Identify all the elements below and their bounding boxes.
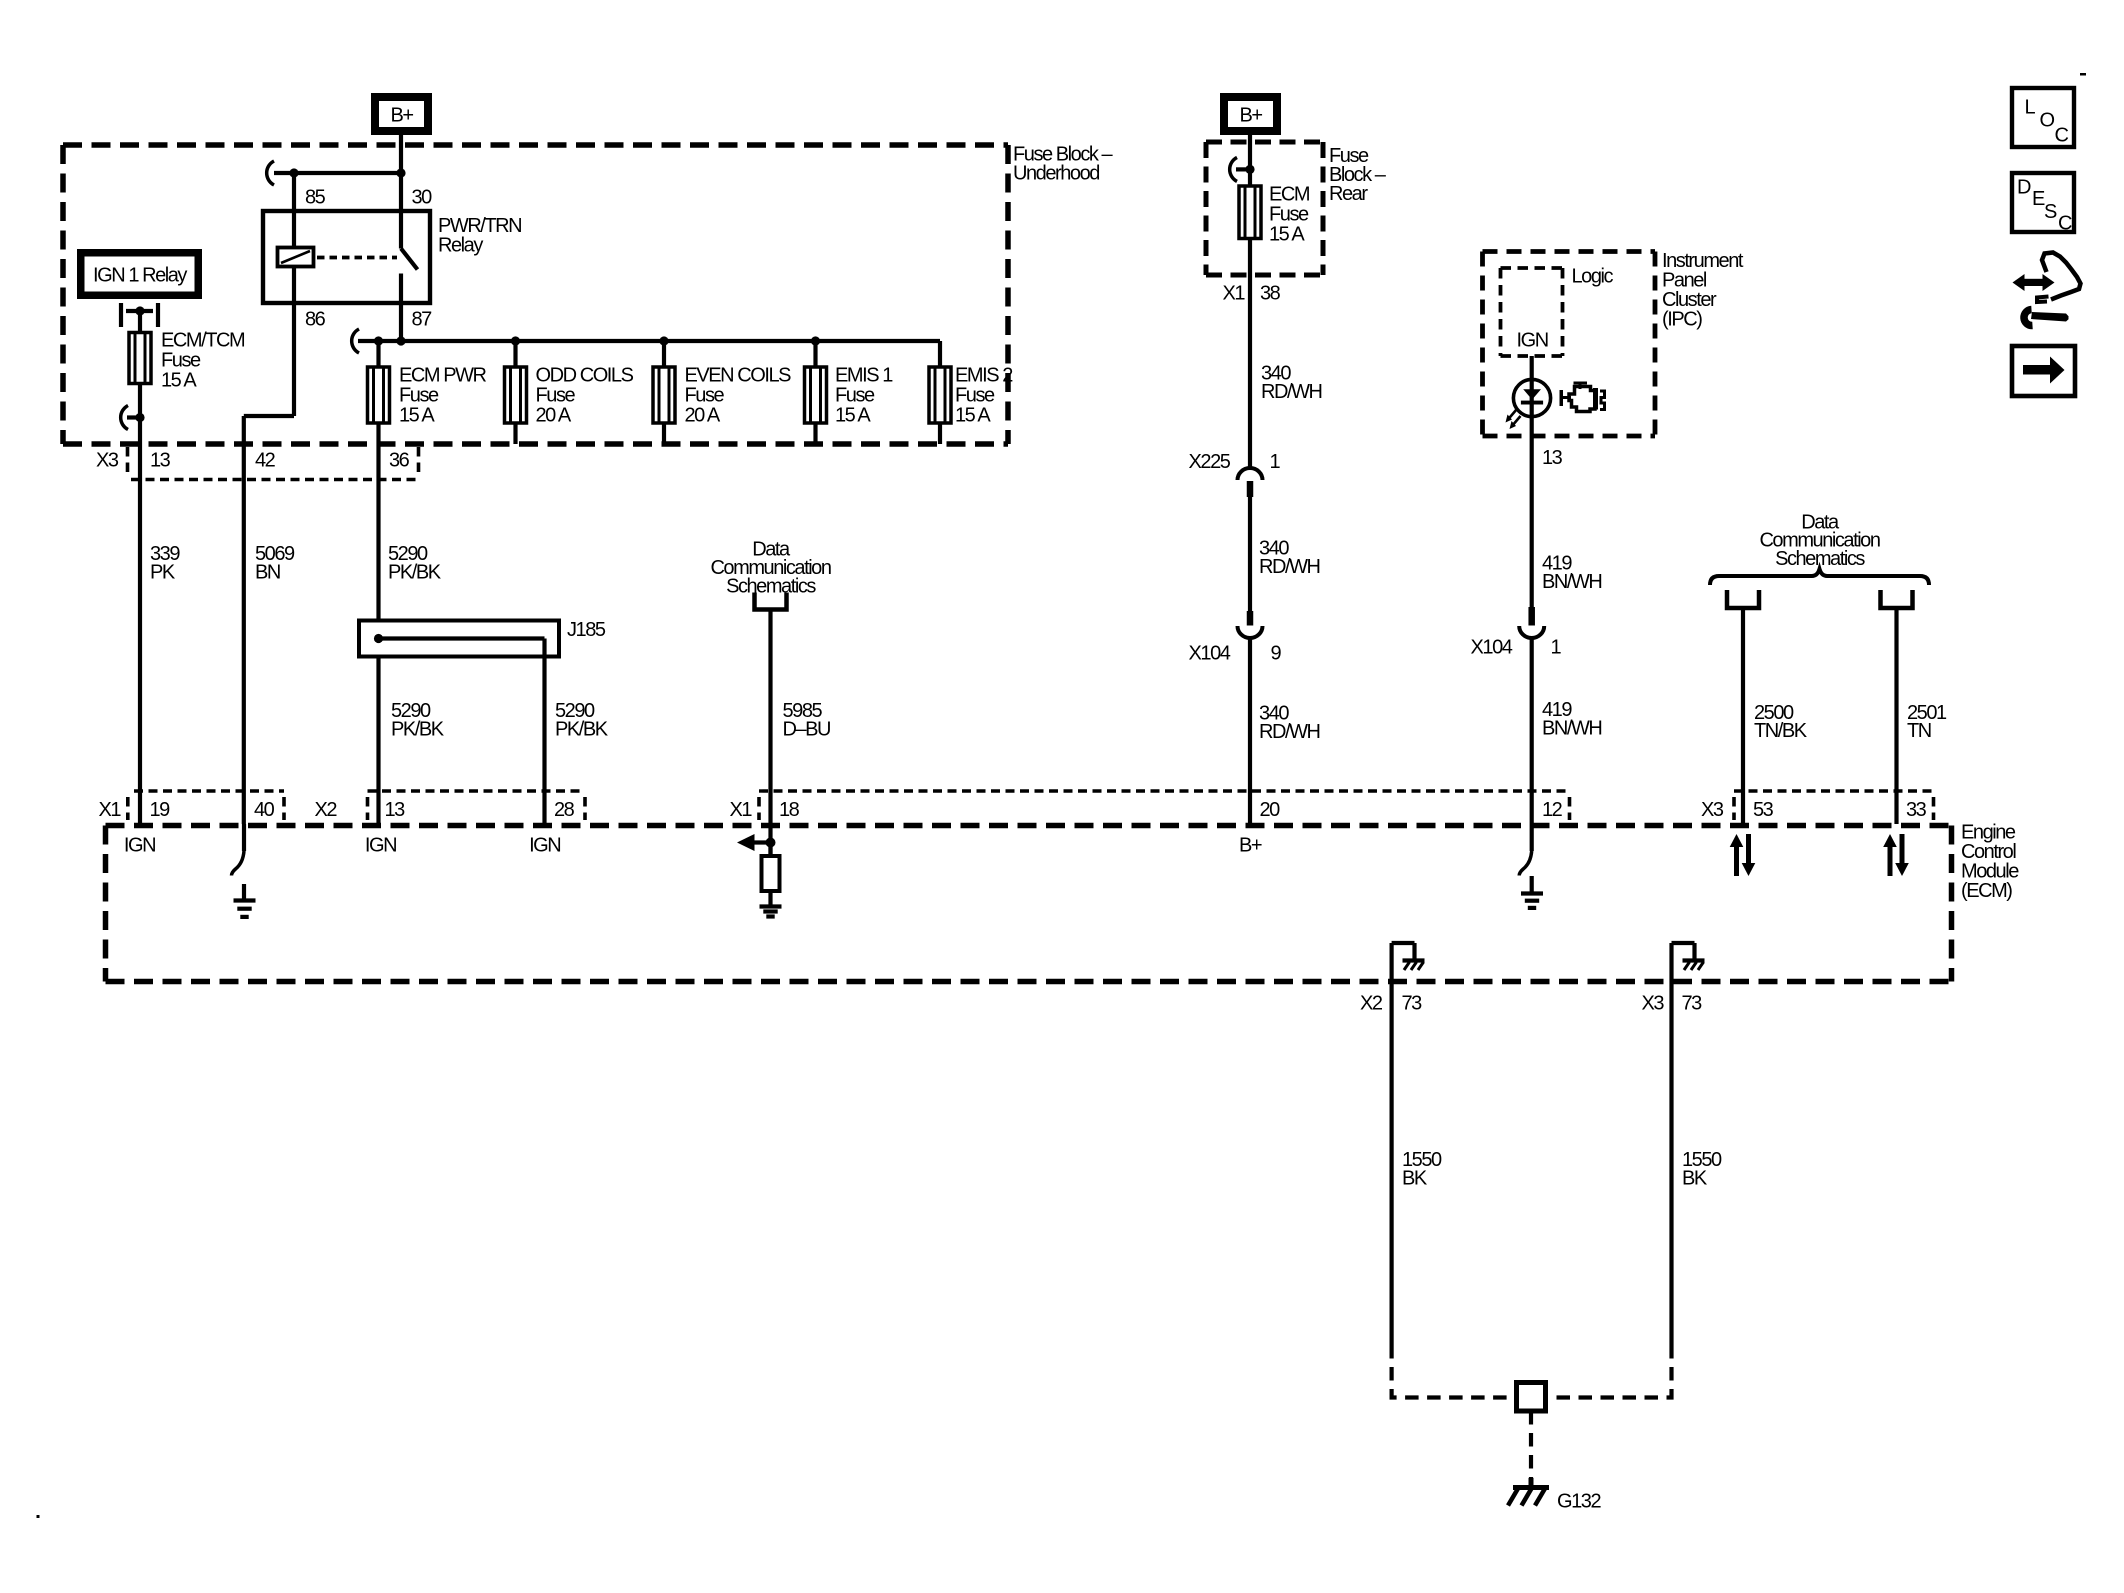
svg-text:ECM: ECM: [1269, 184, 1310, 206]
svg-text:ODD COILS: ODD COILS: [536, 365, 634, 387]
svg-text:Fuse: Fuse: [955, 385, 995, 407]
svg-text:X2: X2: [315, 799, 338, 821]
svg-text:PK/BK: PK/BK: [388, 562, 442, 584]
svg-text:36: 36: [389, 450, 410, 472]
svg-text:X104: X104: [1189, 643, 1231, 665]
svg-text:Fuse: Fuse: [835, 385, 875, 407]
svg-text:EVEN COILS: EVEN COILS: [685, 365, 792, 387]
svg-text:L: L: [2025, 97, 2036, 119]
forward arrow icon: [2012, 346, 2075, 396]
svg-text:EMIS 2: EMIS 2: [955, 365, 1013, 387]
svg-text:RD/WH: RD/WH: [1261, 381, 1322, 403]
svg-text:BK: BK: [1402, 1168, 1428, 1190]
fuse bus junction dots: [374, 336, 383, 345]
svg-text:(ECM): (ECM): [1961, 880, 2012, 902]
svg-text:O: O: [2040, 110, 2055, 132]
svg-text:PK/BK: PK/BK: [391, 719, 445, 741]
svg-text:13: 13: [150, 450, 171, 472]
svg-text:38: 38: [1260, 283, 1281, 305]
B+ terminal box (rear): [1224, 97, 1277, 131]
ECM connector dashed rows: [134, 789, 284, 792]
svg-text:RD/WH: RD/WH: [1259, 556, 1320, 578]
svg-text:20 A: 20 A: [536, 405, 572, 427]
wire 2500 TN/BK to ECM pin 53: [1741, 608, 1745, 824]
svg-text:X1: X1: [1223, 283, 1246, 305]
wire 340 RD/WH X225 to X104: [1247, 481, 1254, 497]
logic box: [1501, 266, 1563, 270]
svg-text:42: 42: [255, 450, 276, 472]
LED emission arrows: [1506, 410, 1521, 430]
svg-text:S: S: [2044, 201, 2057, 223]
svg-text:BN/WH: BN/WH: [1542, 571, 1601, 593]
svg-text:BN/WH: BN/WH: [1542, 718, 1601, 740]
svg-text:15 A: 15 A: [1269, 224, 1305, 246]
wire 5290 PK/BK J185 to ECM pin 28: [542, 639, 546, 825]
hook connector at pin 85 branch: [267, 161, 274, 185]
inline connector X104 pin 1: [1519, 626, 1544, 638]
svg-text:G132: G132: [1557, 1491, 1601, 1513]
svg-text:Rear: Rear: [1329, 183, 1368, 205]
fuse F-EMIS 1 15A: [805, 367, 827, 423]
wire 419 BN/WH X104 to ECM pin 12: [1530, 638, 1534, 826]
svg-text:IGN 1 Relay: IGN 1 Relay: [93, 264, 187, 286]
wire 5290 PK/BK J185 to ECM pin 13: [376, 657, 380, 825]
LED indicator (MIL): [1513, 379, 1550, 416]
svg-text:ECM PWR: ECM PWR: [399, 365, 487, 387]
svg-text:(IPC): (IPC): [1662, 309, 1702, 331]
wire B+ to ECM fuse: [1248, 135, 1252, 186]
svg-text:RD/WH: RD/WH: [1259, 721, 1320, 743]
vehicle outline icon: [2042, 253, 2081, 300]
wire relay pin 86 to X3 pin 42 (5069 BN): [244, 414, 294, 418]
svg-text:73: 73: [1402, 993, 1423, 1015]
pin X3-73 internal chassis ground: [1669, 943, 1673, 982]
J185 internal bus and junction: [379, 636, 545, 640]
svg-text:X2: X2: [1360, 993, 1383, 1015]
svg-text:73: 73: [1682, 993, 1703, 1015]
svg-text:28: 28: [554, 799, 575, 821]
wrench icon: [2024, 310, 2069, 326]
inline connector X225 pin 1: [1238, 468, 1263, 480]
pin40 internal ground wire: [242, 824, 246, 851]
fuse block rear box: [1206, 140, 1323, 145]
relay coil-contact dashed link: [317, 256, 397, 260]
instrument panel cluster box: [1483, 249, 1656, 254]
svg-text:86: 86: [305, 309, 326, 331]
pin18 ground: [768, 891, 772, 907]
fuse F-ECM/TCM 15A: [129, 333, 151, 384]
svg-text:13: 13: [385, 799, 406, 821]
svg-text:C: C: [2058, 213, 2072, 235]
DESC icon: [2012, 173, 2074, 232]
svg-text:15 A: 15 A: [161, 370, 197, 392]
svg-text:1: 1: [1551, 637, 1562, 659]
fuse F-ECM 15A: [1239, 186, 1261, 239]
wire stubs bus to fuses: [376, 341, 380, 367]
fuse F-EVEN COILS 20A: [653, 367, 675, 423]
wire branch to relay pin 85: [274, 171, 401, 175]
svg-text:20: 20: [1260, 799, 1281, 821]
pin40 ground G: [242, 884, 246, 901]
svg-text:15 A: 15 A: [399, 405, 435, 427]
pin12 internal ground wire: [1530, 826, 1534, 852]
off-page connector symbols: [1727, 590, 1759, 608]
fuse F-EMIS 2 15A: [929, 367, 951, 423]
connector X3 dashed outline: [126, 447, 130, 474]
wire B+ feed to relay pin 30: [399, 135, 403, 211]
svg-text:X3: X3: [1642, 993, 1665, 1015]
svg-text:IGN: IGN: [529, 835, 560, 857]
svg-text:Fuse: Fuse: [685, 385, 725, 407]
LED diode symbol: [1523, 389, 1541, 399]
ECM box: [106, 823, 1952, 829]
resistor R (serial data terminator): [768, 843, 772, 857]
stray mark bottom left: [37, 1515, 40, 1518]
svg-text:X1: X1: [730, 799, 753, 821]
svg-text:C: C: [2055, 125, 2069, 147]
fuse block underhood box: [63, 142, 1008, 148]
hook connector at fuse bus start: [352, 329, 359, 353]
fuse bus from relay pin 87: [358, 339, 940, 343]
svg-text:ECM/TCM: ECM/TCM: [161, 330, 245, 352]
svg-text:X225: X225: [1189, 451, 1231, 473]
svg-text:X3: X3: [1701, 799, 1724, 821]
serial data direction arrows pin 53: [1730, 834, 1756, 876]
splice hook below ECM/TCM fuse: [127, 415, 140, 419]
IGN 1 relay label box: [81, 253, 199, 296]
pin12 ground G: [1530, 876, 1534, 894]
dashed lead to G132: [1529, 1411, 1533, 1478]
svg-text:TN/BK: TN/BK: [1754, 720, 1808, 742]
stray mark top right: [2080, 73, 2086, 76]
svg-text:PK: PK: [150, 562, 176, 584]
svg-text:Schematics: Schematics: [726, 576, 816, 598]
B+ terminal box (underhood): [375, 97, 428, 131]
wire 340 RD/WH X104 to ECM pin 20: [1248, 638, 1252, 824]
svg-text:Relay: Relay: [438, 235, 483, 257]
svg-text:33: 33: [1906, 799, 1927, 821]
hook connector at ECM fuse feed: [1236, 167, 1250, 171]
svg-text:B+: B+: [390, 105, 413, 127]
pin X2-73 internal chassis ground: [1389, 943, 1393, 982]
svg-text:IGN: IGN: [124, 835, 155, 857]
svg-text:18: 18: [779, 799, 800, 821]
svg-text:PK/BK: PK/BK: [555, 719, 609, 741]
svg-text:40: 40: [254, 799, 275, 821]
ground G132: [1508, 1478, 1549, 1506]
svg-text:X3: X3: [96, 450, 119, 472]
pin18 serial data arrow: [737, 834, 755, 851]
double arrow icon: [2013, 274, 2055, 291]
fuse F-ECM PWR 15A: [368, 367, 390, 423]
IGN 1 relay terminals: [119, 303, 123, 327]
off-page connector symbol: [755, 593, 787, 610]
dashed harness to splice box (right): [1548, 1345, 1672, 1398]
wire 2501 TN to ECM pin 33: [1894, 608, 1898, 824]
inline connector X104 pin 9: [1238, 626, 1263, 638]
svg-text:15 A: 15 A: [835, 405, 871, 427]
svg-text:Logic: Logic: [1572, 266, 1614, 288]
wire stubs fuses to connector: [513, 423, 517, 444]
wire 1550 BK from X3-73: [1669, 982, 1673, 1346]
svg-text:9: 9: [1271, 643, 1282, 665]
wire IPC logic to X104: [1530, 356, 1534, 607]
svg-text:D: D: [2017, 177, 2031, 199]
svg-text:TN: TN: [1907, 720, 1931, 742]
wire 5290 PK/BK fuse to J185: [376, 423, 380, 621]
dashed harness to splice box (left): [1392, 1345, 1514, 1398]
junction dots on B+ branch: [289, 168, 298, 177]
svg-text:12: 12: [1542, 799, 1563, 821]
wire relay pin 87 to fuse bus: [399, 274, 403, 342]
LOC icon: [2012, 88, 2074, 147]
wire IGN1 relay to ECM/TCM fuse: [138, 311, 142, 333]
wire 1550 BK from X2-73: [1389, 982, 1393, 1346]
svg-text:20 A: 20 A: [685, 405, 721, 427]
svg-text:BN: BN: [255, 562, 280, 584]
svg-text:19: 19: [150, 799, 171, 821]
svg-text:IGN: IGN: [1517, 330, 1548, 352]
svg-text:30: 30: [412, 187, 433, 209]
svg-text:15 A: 15 A: [955, 405, 991, 427]
ECM connector ticks: [126, 797, 130, 820]
svg-text:87: 87: [412, 309, 433, 331]
svg-text:B+: B+: [1239, 835, 1262, 857]
svg-text:1: 1: [1270, 451, 1281, 473]
serial data direction arrows pin 33: [1883, 834, 1909, 876]
svg-text:EMIS 1: EMIS 1: [835, 365, 893, 387]
svg-text:X1: X1: [99, 799, 122, 821]
relay switch blade: [399, 211, 403, 249]
svg-text:53: 53: [1753, 799, 1774, 821]
brace: [1710, 569, 1929, 585]
svg-text:Fuse: Fuse: [161, 350, 201, 372]
svg-text:13: 13: [1542, 447, 1563, 469]
svg-text:X104: X104: [1471, 637, 1513, 659]
svg-text:Fuse: Fuse: [399, 385, 439, 407]
ground splice box: [1517, 1383, 1546, 1412]
check engine icon: [1560, 382, 1605, 412]
fuse F-ODD COILS 20A: [505, 367, 527, 423]
svg-text:85: 85: [305, 187, 326, 209]
relay coil: [278, 248, 314, 267]
svg-text:D–BU: D–BU: [783, 719, 831, 741]
svg-text:IGN: IGN: [365, 835, 396, 857]
svg-text:Fuse: Fuse: [1269, 204, 1309, 226]
svg-text:Fuse: Fuse: [536, 385, 576, 407]
wire 340 RD/WH fuse to X225: [1248, 239, 1252, 468]
wire 5985 D-BU to ECM pin 18: [768, 610, 772, 857]
relay box U-PWR/TRN: [263, 211, 430, 303]
svg-text:J185: J185: [567, 619, 606, 641]
svg-text:B+: B+: [1239, 105, 1262, 127]
wire 339 PK fuse to ECM pin 19: [138, 384, 142, 825]
J185 splice pack box: [359, 621, 559, 657]
svg-text:Underhood: Underhood: [1013, 163, 1099, 185]
svg-text:BK: BK: [1682, 1168, 1708, 1190]
